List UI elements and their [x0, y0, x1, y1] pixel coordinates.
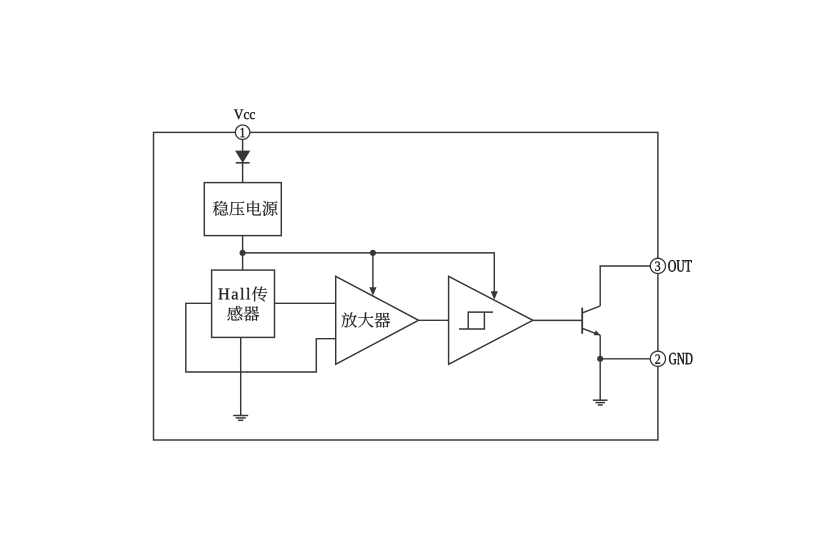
label 放大器 — [341, 312, 390, 327]
wire: Q1 collector to pin 3 OUT — [600, 266, 650, 306]
ground (Hall) — [233, 415, 248, 417]
pin number 3 — [655, 262, 660, 271]
pin 1 (Vcc) — [235, 125, 249, 139]
wire: diode to regulator block — [242, 163, 244, 183]
wire: Hall block to ground — [240, 337, 242, 415]
wire: amplifier output to schmitt input — [419, 319, 449, 321]
IC package outline — [154, 132, 658, 440]
wire: regulator to Hall sensor block — [242, 236, 244, 271]
transistor Q1 (NPN) — [581, 308, 583, 334]
label Hall传感器 — [218, 288, 250, 300]
wire: internal supply bus — [243, 252, 495, 254]
hysteresis symbol — [459, 312, 493, 329]
junction: bus tap to amplifier — [370, 250, 376, 256]
op-amp U1: amplifier 放大器 — [336, 276, 419, 364]
wire: schmitt output to Q1 base — [533, 319, 582, 321]
label OUT — [668, 260, 691, 272]
wire: pin 1 to diode D1 — [242, 139, 244, 151]
block: voltage regulator 稳压电源 — [204, 183, 281, 236]
wire: node to pin 2 GND — [600, 358, 650, 360]
pin 2 (GND) — [650, 351, 665, 366]
label GND — [669, 353, 692, 365]
pin number 2 — [655, 354, 660, 363]
block: Hall sensor Hall传感器 — [212, 270, 275, 337]
label 稳压电源 — [213, 201, 278, 216]
diode D1 (anode down) — [236, 151, 250, 162]
wire: Hall feedback loop to amplifier lower input — [186, 303, 336, 372]
wire: Q1 emitter to ground node — [599, 335, 601, 400]
wire: Hall output to amplifier input — [275, 302, 336, 304]
label Vcc — [234, 110, 255, 120]
ground (output stage) — [593, 399, 608, 401]
pin number 1 — [241, 128, 245, 137]
comparator U2: schmitt trigger — [449, 276, 533, 364]
junction: regulator output node — [240, 250, 246, 256]
arrow: bus feed into amplifier — [372, 253, 374, 289]
junction: emitter/GND node — [597, 356, 603, 362]
pin 3 (OUT) — [650, 258, 665, 273]
arrow: bus feed into schmitt trigger — [493, 252, 495, 291]
